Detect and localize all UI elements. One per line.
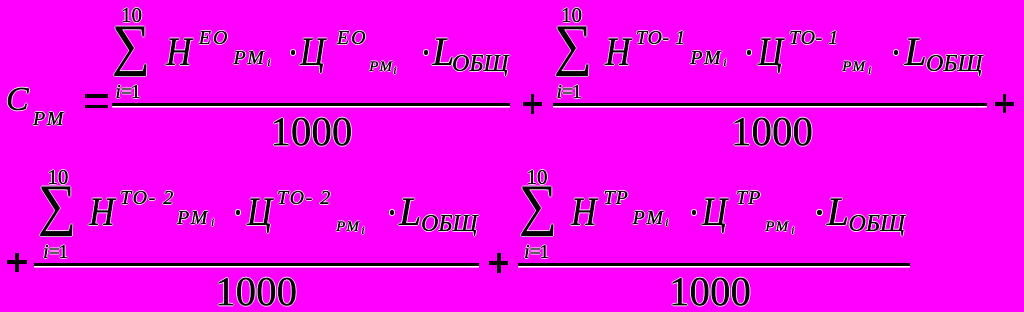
fraction 1 (EO term) H subscript index i xyxy=(267,56,270,68)
fraction 1 (EO term) fraction bar xyxy=(112,103,510,105)
fraction 4 (TR term) H subscript index i xyxy=(665,216,668,228)
fraction 3 (TO-2 term) variable Tse xyxy=(247,192,272,232)
fraction 3 (TO-2 term) multiplication dot xyxy=(390,210,394,214)
plus sign between fraction 3 and 4 xyxy=(489,261,509,265)
fraction 2 (TO-1 term) variable L xyxy=(904,32,926,72)
fraction 3 (TO-2 term) H superscript TO-2 xyxy=(120,188,175,208)
fraction 2 (TO-1 term) variable Tse xyxy=(758,32,783,72)
fraction 1 (EO term) L subscript OBShch xyxy=(452,52,509,76)
fraction 3 (TO-2 term) multiplication dot xyxy=(236,210,240,214)
fraction 3 (TO-2 term) upper limit 10 xyxy=(47,167,68,188)
fraction 2 (TO-1 term) multiplication dot xyxy=(894,50,898,54)
fraction 4 (TR term) Tse subscript PM (small) xyxy=(765,220,789,235)
fraction 1 (EO term) upper limit 10 xyxy=(121,5,142,26)
fraction 4 (TR term) fraction bar xyxy=(518,263,910,265)
fraction 1 (EO term) summation sigma xyxy=(112,17,150,74)
fraction 4 (TR term) variable Tse xyxy=(702,192,727,232)
fraction 4 (TR term) summation sigma xyxy=(519,177,557,234)
fraction 2 (TO-1 term) multiplication dot xyxy=(747,50,751,54)
fraction 1 (EO term) Tse superscript EO xyxy=(337,28,368,48)
fraction 3 (TO-2 term) denominator 1000 xyxy=(215,271,297,312)
fraction 2 (TO-1 term) H superscript TO-1 xyxy=(636,28,686,48)
plus sign between fraction 1 and 2 xyxy=(523,102,543,106)
fraction 3 (TO-2 term) H subscript index i xyxy=(211,216,214,228)
fraction 3 (TO-2 term) Tse superscript TO-2 xyxy=(277,188,332,208)
fraction 1 (EO term) variable H xyxy=(166,32,192,72)
fraction 4 (TR term) variable L xyxy=(827,192,849,232)
fraction 3 (TO-2 term) variable H xyxy=(89,192,115,232)
fraction 4 (TR term) upper limit 10 xyxy=(527,167,548,188)
fraction 2 (TO-1 term) denominator 1000 xyxy=(731,111,813,152)
fraction 1 (EO term) multiplication dot xyxy=(291,50,295,54)
fraction 2 (TO-1 term) L subscript OBShch xyxy=(926,52,983,76)
fraction 4 (TR term) Tse superscript TR xyxy=(736,188,761,208)
fraction 4 (TR term) L subscript OBShch xyxy=(849,212,906,236)
fraction 1 (EO term) lower limit i=1 xyxy=(115,82,139,102)
fraction 1 (EO term) H subscript PM xyxy=(234,48,266,68)
fraction 1 (EO term) denominator 1000 xyxy=(270,111,352,152)
fraction 1 (EO term) multiplication dot xyxy=(424,50,428,54)
fraction 4 (TR term) multiplication dot xyxy=(817,210,821,214)
fraction 2 (TO-1 term) fraction bar xyxy=(553,103,987,105)
fraction 2 (TO-1 term) Tse subscript PM (small) xyxy=(842,60,866,75)
fraction 2 (TO-1 term) summation sigma xyxy=(554,17,592,74)
fraction 2 (TO-1 term) Tse subscript index i (small) xyxy=(868,64,871,76)
fraction 4 (TR term) H subscript PM xyxy=(633,208,665,228)
fraction 4 (TR term) Tse subscript index i (small) xyxy=(791,224,794,236)
fraction 2 (TO-1 term) variable H xyxy=(605,32,631,72)
fraction 2 (TO-1 term) H subscript index i xyxy=(723,56,726,68)
fraction 1 (EO term) Tse subscript index i (small) xyxy=(393,64,396,76)
fraction 2 (TO-1 term) upper limit 10 xyxy=(561,5,582,26)
plus sign line-end row 1 xyxy=(995,102,1015,106)
equals sign xyxy=(85,94,108,98)
fraction 3 (TO-2 term) lower limit i=1 xyxy=(43,242,67,262)
fraction 4 (TR term) multiplication dot xyxy=(692,210,696,214)
fraction 1 (EO term) H superscript EO xyxy=(199,28,230,48)
fraction 3 (TO-2 term) Tse subscript index i (small) xyxy=(361,224,364,236)
fraction 1 (EO term) Tse subscript PM (small) xyxy=(369,60,393,75)
fraction 3 (TO-2 term) fraction bar xyxy=(34,263,479,265)
plus sign line-start row 2 xyxy=(7,260,27,264)
fraction 3 (TO-2 term) variable L xyxy=(399,192,421,232)
fraction 4 (TR term) lower limit i=1 xyxy=(524,242,548,262)
fraction 2 (TO-1 term) lower limit i=1 xyxy=(557,82,581,102)
fraction 4 (TR term) denominator 1000 xyxy=(669,271,751,312)
fraction 4 (TR term) H superscript TR xyxy=(604,188,629,208)
C subscript PM xyxy=(33,109,65,129)
fraction 3 (TO-2 term) Tse subscript PM (small) xyxy=(336,220,360,235)
fraction 1 (EO term) variable L xyxy=(432,32,454,72)
fraction 2 (TO-1 term) Tse superscript TO-1 xyxy=(789,28,839,48)
fraction 3 (TO-2 term) L subscript OBShch xyxy=(421,212,478,236)
fraction 2 (TO-1 term) H subscript PM xyxy=(690,48,722,68)
fraction 3 (TO-2 term) H subscript PM xyxy=(177,208,209,228)
fraction 4 (TR term) variable H xyxy=(571,192,597,232)
left-hand side: C xyxy=(6,83,29,117)
fraction 3 (TO-2 term) summation sigma xyxy=(38,177,76,234)
fraction 1 (EO term) variable Tse xyxy=(300,32,325,72)
